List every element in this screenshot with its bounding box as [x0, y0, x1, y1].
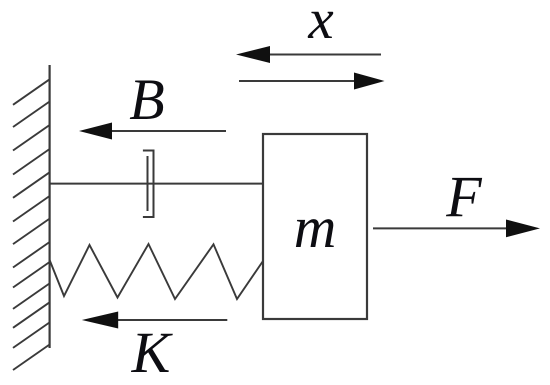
label x — [307, 0, 333, 51]
damper B piston — [147, 156, 149, 211]
wall — [48, 65, 50, 348]
damper B cylinder — [143, 151, 154, 218]
label B — [129, 67, 164, 132]
spring force arrow K — [82, 312, 228, 329]
label m — [294, 194, 337, 260]
label K — [131, 320, 174, 385]
svg-text:K: K — [131, 320, 174, 385]
displacement arrow x right — [239, 73, 385, 90]
force arrow F — [373, 220, 540, 238]
mass block m — [263, 134, 367, 319]
svg-text:B: B — [129, 67, 164, 132]
svg-text:m: m — [294, 194, 337, 260]
damper rod wire — [50, 183, 263, 185]
wall hatching — [13, 79, 50, 370]
spring K zigzag — [50, 244, 263, 299]
displacement arrow x left — [236, 46, 381, 63]
svg-text:F: F — [445, 164, 482, 229]
svg-text:x: x — [307, 0, 333, 51]
label F — [445, 164, 482, 229]
damping force arrow B — [79, 123, 226, 140]
